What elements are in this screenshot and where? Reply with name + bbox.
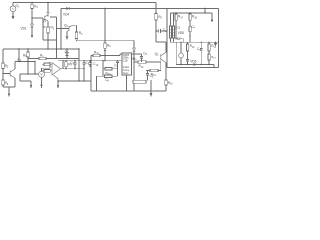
svg-text:C4: C4 xyxy=(191,25,195,30)
svg-text:R6: R6 xyxy=(107,44,111,49)
svg-text:R12: R12 xyxy=(139,64,145,69)
svg-text:R2: R2 xyxy=(5,64,9,69)
svg-text:Q1: Q1 xyxy=(42,18,46,23)
svg-text:R16: R16 xyxy=(168,81,174,86)
svg-text:C2B: C2B xyxy=(123,59,128,62)
svg-text:VD1: VD1 xyxy=(21,26,27,30)
svg-text:R10: R10 xyxy=(190,44,196,49)
svg-text:Q2: Q2 xyxy=(64,23,68,28)
svg-text:VD6: VD6 xyxy=(190,59,196,63)
svg-text:VD8: VD8 xyxy=(178,31,184,35)
svg-text:R17: R17 xyxy=(178,15,184,20)
svg-text:C5: C5 xyxy=(143,51,147,56)
svg-text:R8: R8 xyxy=(5,81,9,86)
svg-text:VD4: VD4 xyxy=(63,12,69,16)
svg-text:C3: C3 xyxy=(163,28,167,33)
svg-text:R5: R5 xyxy=(158,15,162,20)
svg-text:R18: R18 xyxy=(192,15,198,20)
svg-text:R3: R3 xyxy=(51,26,55,31)
svg-text:G1: G1 xyxy=(16,4,20,9)
svg-text:C10: C10 xyxy=(93,62,99,67)
svg-text:C8: C8 xyxy=(105,78,109,83)
svg-text:DC2: DC2 xyxy=(175,25,181,29)
svg-text:R11: R11 xyxy=(94,51,99,56)
svg-text:R14: R14 xyxy=(106,71,112,76)
svg-text:Q5: Q5 xyxy=(155,52,159,57)
svg-text:C1: C1 xyxy=(114,64,118,69)
svg-text:VD5: VD5 xyxy=(131,57,137,62)
svg-text:R4: R4 xyxy=(79,31,83,36)
svg-text:Sens: Sens xyxy=(123,72,129,75)
svg-text:R1: R1 xyxy=(34,5,38,10)
svg-text:R19: R19 xyxy=(211,55,216,60)
